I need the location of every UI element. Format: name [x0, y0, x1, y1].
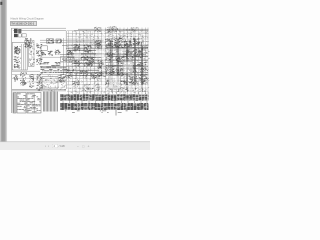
table T3 divider wire [33, 93, 35, 113]
control box pocket [123, 62, 133, 74]
schematic top border wire [11, 27, 66, 29]
branch wire vertical 1 [65, 31, 67, 89]
solenoid block [88, 57, 95, 63]
schematic left border wire [10, 28, 12, 113]
label rows left-mid [41, 62, 61, 67]
valve block [97, 60, 105, 69]
sensor cluster A [74, 60, 80, 66]
terminal table T1 [13, 93, 16, 114]
sensor cluster B [80, 70, 88, 76]
mid knot 3 [84, 62, 93, 67]
starter wire 3 [24, 44, 26, 70]
harness grid wires [67, 28, 149, 96]
left harness wire 2 [12, 77, 63, 79]
battery box B1 [12, 43, 27, 71]
connector bank CN1 [43, 92, 58, 112]
starter wire 1 [21, 44, 23, 70]
bottom tick row [65, 111, 138, 113]
left lower cluster B [20, 72, 27, 85]
cab harness cluster 4 [133, 38, 140, 46]
heater unit [55, 50, 61, 55]
mid-low field [41, 74, 66, 92]
left harness wire 3 [27, 81, 63, 83]
relay R2 [36, 50, 43, 56]
mid bus wire 1 [40, 39, 104, 41]
battery symbol cluster [14, 46, 21, 54]
sensor gap pocket B [96, 51, 104, 58]
long trunk wires [40, 45, 148, 72]
right cluster mid 1 [105, 66, 115, 75]
horn relay [41, 52, 46, 56]
junction white channel [102, 28, 105, 93]
rear harness cluster 1 [106, 52, 114, 61]
svg-text:/ 118: / 118 [59, 144, 65, 148]
top connector stub 1 [94, 27, 101, 32]
rear harness cluster 3 [126, 50, 135, 58]
relay R1 [36, 44, 42, 49]
legend block box C [14, 34, 18, 37]
top bus wire pair B [74, 30, 149, 32]
sidebar icon [0, 2, 2, 5]
top connector stub 2 [107, 26, 118, 32]
pump cluster [59, 74, 67, 82]
switch box S2 [56, 39, 61, 43]
pager controls [45, 144, 65, 148]
lower bus wire B [12, 90, 66, 92]
mid knot 5 [67, 72, 73, 78]
wiper relay [48, 51, 53, 56]
rear harness cluster 2 [116, 56, 125, 64]
cab harness cluster 2 [114, 38, 124, 49]
switch box SW1 [22, 34, 26, 37]
pump box content [44, 78, 58, 87]
mid knot 4 [99, 71, 106, 78]
sensor gap pocket A [74, 52, 81, 59]
svg-text:− □ +: − □ + [77, 144, 91, 148]
mid bus wire 3 [40, 56, 104, 58]
zoom controls [77, 144, 91, 148]
panel block content [62, 57, 75, 62]
right cluster low 1 [105, 78, 115, 88]
scan fade overlay [8, 0, 151, 141]
legend block box D [18, 34, 21, 37]
fusible link box [47, 39, 54, 43]
terminal table T2 [17, 93, 26, 114]
left lower cluster A [14, 75, 18, 82]
mid dark wire bundles [67, 51, 104, 76]
schematic top bus wire [13, 30, 66, 32]
band gap tick wires [63, 101, 147, 104]
rear harness cluster 4 [135, 48, 144, 58]
right cluster mid 2 [116, 68, 126, 76]
lamp relay [41, 46, 47, 51]
battery label column [14, 56, 22, 68]
svg-text:‹ ‹: ‹ ‹ [45, 144, 49, 148]
harness texture field [67, 30, 150, 94]
relay box knot [113, 85, 118, 88]
mid lower cluster 2 [82, 84, 90, 91]
harness clearing band [68, 85, 149, 88]
control panel block [61, 57, 75, 63]
alternator cluster [90, 72, 98, 79]
right cluster mid 4 [137, 62, 147, 72]
lower bus wire A [12, 88, 66, 90]
right cluster low 3 [129, 76, 138, 86]
relay box pocket [109, 76, 121, 90]
mid knot 2 [81, 56, 89, 60]
legend block box B [18, 29, 21, 33]
label rows mid [41, 68, 75, 73]
cab harness cluster 3 [124, 40, 133, 47]
pump box P1 [42, 77, 58, 89]
right dark vertical bundles [111, 40, 143, 92]
mid knot 1 [67, 50, 73, 55]
legend block box A [14, 29, 18, 33]
relay R3 [36, 58, 43, 65]
left harness wire 1 [12, 74, 63, 76]
left lower cluster D [36, 73, 43, 91]
branch wire vertical 2 [62, 38, 64, 75]
viewer bottom bar [0, 142, 150, 150]
top connector stub 3 [131, 27, 138, 32]
starter wire 2 [23, 44, 25, 70]
tail wire [115, 110, 117, 116]
monitor cluster [84, 45, 92, 53]
right cluster low 2 [117, 80, 128, 89]
relay bank cluster [25, 38, 33, 48]
right harness extra texture [104, 29, 149, 93]
cab harness cluster 1 [105, 38, 114, 46]
terminal table T3 [27, 93, 41, 114]
right cluster mid 3 [127, 65, 137, 74]
right dark horizontal runs [106, 48, 148, 74]
left return wire [12, 70, 40, 72]
top bus wire pair A [78, 28, 149, 30]
connector rows upper [60, 94, 149, 100]
fuse column F1 [29, 41, 35, 67]
pump controller [95, 40, 103, 48]
right cluster low 4 [139, 74, 147, 83]
mid lower cluster 3 [92, 84, 100, 90]
mid lower cluster 1 [72, 80, 80, 87]
page background [0, 0, 150, 150]
left lower cluster C [29, 74, 35, 88]
part number box [11, 21, 37, 25]
connector rows lower [60, 103, 149, 110]
mid bus wire 2 [40, 42, 104, 44]
ECU cluster [73, 44, 80, 50]
page title text [11, 18, 44, 21]
